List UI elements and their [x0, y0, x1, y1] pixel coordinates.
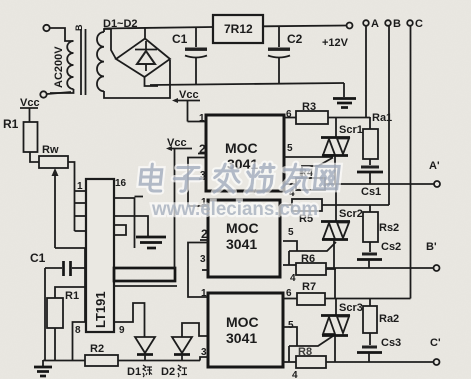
svg-text:C1: C1 [30, 251, 46, 265]
svg-text:LT191: LT191 [93, 291, 108, 328]
terminal A' [429, 160, 440, 187]
svg-text:Scr3: Scr3 [339, 302, 363, 314]
resistor R1 upper [24, 122, 38, 152]
IC LT191 [86, 179, 114, 332]
terminal B' [426, 241, 440, 271]
terminal C [407, 18, 423, 30]
svg-text:5: 5 [287, 143, 293, 154]
svg-text:MOC: MOC [225, 140, 258, 156]
resistor R7 [297, 281, 325, 305]
pin 3 label U3 [200, 347, 208, 361]
label AC200V [53, 46, 65, 88]
snubber capacitor Cs2 [357, 241, 401, 268]
label Scr1 [339, 124, 363, 136]
svg-text:A': A' [429, 160, 440, 172]
svg-text:Ra2: Ra2 [379, 313, 399, 325]
svg-text:5: 5 [288, 227, 294, 238]
svg-text:C: C [415, 18, 423, 30]
svg-text:C': C' [430, 337, 441, 349]
resistor R3 [296, 101, 328, 124]
svg-text:16: 16 [115, 178, 127, 189]
resistor R5 [292, 199, 322, 225]
pin 5 label U2 [283, 227, 297, 251]
wire bridge top vertex to +12V rail [144, 28, 146, 39]
svg-text:Scr2: Scr2 [339, 208, 363, 220]
wire phase line A [365, 26, 367, 117]
wire triac series link B-C [334, 268, 336, 299]
snubber capacitor Cs1 [357, 166, 383, 199]
transformer B primary winding [50, 41, 74, 93]
regulator 7R12 [213, 15, 263, 43]
label D1 [127, 365, 152, 378]
wire phase line C [410, 26, 412, 299]
op-coupler U3 MOC3041 [208, 293, 283, 367]
LT191 left pin stubs [75, 191, 87, 231]
ground filter rail [333, 83, 356, 108]
pin 4 label U2 [283, 265, 296, 284]
wire secondary top to rail [104, 29, 111, 32]
wire ground rail [150, 83, 344, 85]
wire Rw right to LT191 left pins [68, 162, 75, 231]
LT191 right loop 1 [114, 197, 148, 249]
svg-text:1: 1 [199, 113, 205, 124]
svg-text:MOC: MOC [226, 220, 259, 236]
triac Scr1 [321, 117, 350, 184]
label Vcc left [20, 97, 40, 109]
wire R3 to phase node A [328, 117, 370, 119]
pin 4 label U1 [284, 184, 296, 199]
pin 5 label U1 [284, 143, 333, 157]
svg-text:8: 8 [75, 325, 81, 336]
svg-text:R2: R2 [90, 343, 104, 355]
wire pin 8 to rail [73, 322, 87, 360]
svg-text:3041: 3041 [226, 330, 257, 346]
wire U1 pin2 to U2 pin1 [188, 154, 208, 207]
svg-text:3: 3 [200, 254, 206, 265]
svg-text:7R12: 7R12 [224, 22, 253, 36]
label D1~D2 [103, 18, 138, 30]
label B [74, 24, 84, 31]
terminal +12V [322, 23, 353, 50]
LT191 right loop 3 [114, 268, 177, 286]
svg-text:D2: D2 [161, 366, 175, 378]
ground bottom left [34, 360, 52, 376]
svg-text:Ra1: Ra1 [372, 112, 392, 124]
svg-text:5: 5 [288, 320, 294, 331]
wire triac series link A-B [335, 184, 337, 205]
diode D2 red LED [172, 337, 192, 360]
svg-text:www.elecians.com: www.elecians.com [151, 199, 318, 220]
label C2 [287, 32, 303, 46]
pin 3 label U2 [200, 254, 208, 270]
svg-text:Cs2: Cs2 [381, 241, 401, 253]
svg-text:Cs3: Cs3 [381, 337, 401, 349]
svg-text:Scr1: Scr1 [339, 124, 363, 136]
svg-text:Rs2: Rs2 [379, 222, 399, 234]
pin 6 label U1 [284, 109, 296, 120]
wire R1 to Rw [30, 152, 39, 162]
svg-text:A: A [371, 18, 379, 30]
pin 2 label U1 [199, 142, 206, 156]
terminal A [363, 18, 379, 30]
resistor R4 [296, 167, 325, 190]
svg-text:R7: R7 [302, 281, 316, 293]
terminal AC input top [43, 25, 49, 31]
svg-text:C1: C1 [172, 32, 188, 46]
ground LT191 [136, 237, 166, 248]
svg-text:B: B [393, 18, 401, 30]
svg-text:2: 2 [201, 227, 208, 241]
svg-text:Rw: Rw [42, 144, 59, 156]
svg-text:D1: D1 [127, 366, 141, 378]
label R1 upper [3, 117, 19, 131]
svg-text:4: 4 [292, 370, 298, 379]
wire output line A [325, 183, 434, 185]
wire D2 anode [182, 323, 208, 337]
triac Scr3 [321, 299, 350, 363]
wire R7 to phase node C [325, 298, 411, 300]
resistor R6 [296, 253, 336, 275]
svg-text:1: 1 [201, 288, 207, 299]
pin 3 label U1 [199, 170, 206, 181]
wire output line C [326, 361, 433, 363]
pin 1 label U1 [199, 113, 205, 124]
op-coupler U1 MOC3041 [206, 115, 284, 191]
pin 2 label U2 [201, 227, 208, 241]
wire gate Scr3 [289, 336, 333, 362]
capacitor C1 timing [30, 251, 85, 360]
svg-text:B: B [74, 24, 84, 31]
diode D1 green LED [135, 337, 155, 360]
svg-text:Cs1: Cs1 [361, 186, 381, 198]
wire R5 to phase node B [322, 204, 389, 206]
bridge inner diode [135, 41, 157, 71]
label D2 [161, 365, 187, 378]
transformer core [81, 29, 86, 95]
resistor R1 lower [47, 287, 85, 360]
svg-text:C2: C2 [287, 32, 303, 46]
pin 9 label [119, 325, 125, 336]
node Vcc 1 [172, 89, 200, 122]
svg-text:6: 6 [286, 288, 292, 299]
wire pin 9 to D1 [114, 303, 145, 337]
svg-text:B': B' [426, 241, 437, 253]
terminal Vcc left [40, 91, 71, 97]
pin 1 label U3 [201, 288, 207, 299]
pin 16 label [115, 178, 127, 189]
wire bottom rail [43, 360, 200, 362]
bridge rectifier D1-D2 diamond [116, 39, 170, 78]
pin 5 label U3 [284, 320, 297, 346]
wire AC to bridge left vertex [111, 29, 116, 59]
svg-text:+12V: +12V [322, 37, 349, 49]
wire bridge bottom vertex to ground rail [145, 77, 159, 86]
wire U2 pin2 to U3 pin1 [188, 240, 208, 297]
resistor R2 [85, 343, 118, 366]
pin 8 label [75, 325, 81, 336]
svg-text:AC200V: AC200V [53, 46, 65, 88]
snubber resistor Rs3 [363, 299, 399, 346]
terminal B [385, 18, 401, 30]
svg-text:MOC: MOC [226, 314, 259, 330]
wire gate Scr2 [289, 242, 336, 265]
transformer B secondary winding [97, 32, 104, 91]
wire phase line B [388, 26, 390, 205]
snubber resistor Rs2 [363, 205, 399, 252]
wire output line B [326, 267, 433, 269]
wire [50, 28, 74, 41]
svg-text:3041: 3041 [226, 236, 257, 252]
capacitor C2 [268, 26, 290, 84]
svg-text:R1: R1 [65, 290, 79, 302]
svg-text:9: 9 [119, 325, 125, 336]
svg-text:Vcc: Vcc [179, 89, 199, 101]
op-coupler U2 MOC3041 [208, 200, 280, 277]
resistor R8 [296, 346, 326, 368]
node Vcc 2 [166, 137, 192, 268]
label Scr2 [339, 208, 363, 220]
snubber resistor Rs1 [363, 112, 392, 165]
pin 6 stub U2 [280, 204, 292, 206]
SCHEMATIC [0, 0, 1, 1]
triac Scr2 [321, 205, 350, 268]
wire +12V rail [104, 26, 346, 29]
potentiometer Rw [39, 144, 68, 248]
snubber capacitor Cs3 [357, 337, 401, 362]
LT191 right loop 2 [114, 225, 126, 235]
terminal C' [430, 337, 441, 365]
label Scr3 [339, 302, 363, 314]
pin 1 label U2 [201, 197, 207, 208]
wire Vcc1 to MOC1 pin 1 [188, 121, 207, 123]
label C1 [172, 32, 188, 46]
pin 6 label U3 [283, 288, 297, 299]
wire wiper bus [55, 248, 85, 322]
wire Vcc to R1 [29, 108, 31, 122]
pin 4 label U3 [283, 362, 298, 379]
svg-text:R1: R1 [3, 117, 19, 131]
pin 1 label [77, 181, 83, 192]
capacitor C1 filter [185, 28, 207, 85]
wire gate Scr1 [302, 158, 333, 179]
wire secondary bottom to bridge right vertex [104, 60, 170, 98]
